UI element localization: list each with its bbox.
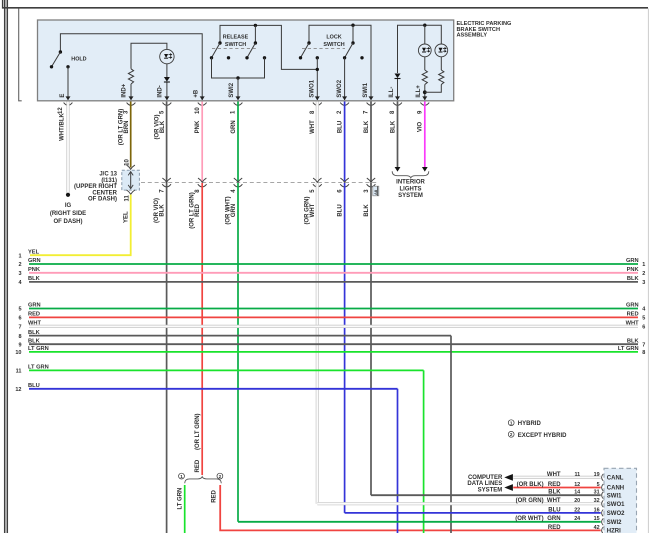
svg-text:(OR GRN): (OR GRN) bbox=[516, 498, 544, 504]
svg-text:ILL+: ILL+ bbox=[416, 85, 422, 98]
svg-text:(UPPER RIGHT: (UPPER RIGHT bbox=[74, 184, 117, 190]
svg-text:BRN: BRN bbox=[124, 120, 130, 133]
wire row 10 LT GRN bbox=[29, 351, 638, 353]
node SWI2 tap bbox=[236, 76, 239, 79]
svg-text:A8: A8 bbox=[373, 189, 378, 195]
wire GRN to SWI2 bbox=[238, 521, 601, 523]
svg-text:7: 7 bbox=[18, 325, 21, 331]
svg-text:3: 3 bbox=[124, 110, 130, 114]
svg-text:GRN: GRN bbox=[28, 258, 41, 264]
switch release pole 1 bbox=[210, 41, 230, 59]
svg-text:LT GRN: LT GRN bbox=[177, 488, 183, 510]
brace split RED wire bbox=[185, 477, 222, 484]
arrow CANL to computer data lines bbox=[504, 474, 513, 481]
svg-text:PNK: PNK bbox=[28, 267, 41, 273]
svg-text:8: 8 bbox=[642, 350, 645, 356]
svg-text:WHT: WHT bbox=[547, 472, 561, 478]
wire row 12 BLU drop bbox=[397, 389, 399, 533]
svg-text:(I131): (I131) bbox=[101, 178, 117, 184]
svg-text:42: 42 bbox=[594, 525, 600, 531]
svg-text:INTERIOR: INTERIOR bbox=[396, 180, 425, 186]
wire BLU vertical bbox=[344, 183, 346, 513]
svg-text:10: 10 bbox=[15, 350, 21, 356]
switch lock pole 1 bbox=[299, 41, 319, 59]
svg-text:5: 5 bbox=[310, 189, 316, 193]
svg-text:WHT: WHT bbox=[310, 120, 316, 134]
wire (OR LT GRN) RED vertical bbox=[201, 183, 203, 475]
wire row 6 RED bbox=[29, 316, 638, 318]
arrow ILL- to interior lights bbox=[395, 167, 401, 172]
wire YEL from J/C 13 to row 1 bbox=[30, 195, 131, 256]
wire diode to pin ILL- bbox=[397, 79, 399, 100]
svg-text:SWO1: SWO1 bbox=[607, 502, 625, 508]
LED indicator bbox=[160, 49, 174, 63]
wire release contacts to SWI2 bbox=[212, 58, 265, 78]
svg-text:GRN: GRN bbox=[626, 303, 639, 309]
wire BRN from pin IND+ bbox=[130, 102, 132, 168]
svg-text:HYBRID: HYBRID bbox=[518, 421, 542, 427]
svg-text:BLK: BLK bbox=[28, 338, 41, 344]
wire RED option 2 bbox=[220, 485, 601, 530]
wire row 8 BLK drop bbox=[450, 336, 452, 533]
svg-text:3: 3 bbox=[18, 271, 21, 277]
wire resistor2 to ILL+ junction bbox=[425, 85, 442, 93]
svg-text:22: 22 bbox=[574, 507, 580, 513]
connector box computer bbox=[604, 468, 637, 533]
wire WHT to CANL bbox=[513, 476, 601, 479]
svg-text:SWI2: SWI2 bbox=[229, 82, 235, 97]
diode ILL- bbox=[395, 74, 401, 79]
svg-text:RED: RED bbox=[28, 312, 40, 318]
J/C 13 internal arrow bbox=[130, 173, 132, 188]
svg-text:32: 32 bbox=[594, 498, 600, 504]
svg-text:BLK: BLK bbox=[28, 330, 41, 336]
wire BLU to SWO2 bbox=[345, 512, 601, 514]
node ILL+ bottom junction bbox=[423, 90, 427, 94]
svg-text:WHT: WHT bbox=[310, 203, 316, 217]
brace interior lights bbox=[392, 171, 429, 178]
svg-text:OF DASH): OF DASH) bbox=[88, 197, 117, 203]
wire lock bracket to SWI1 bbox=[309, 25, 371, 100]
label (OR LT GRN) BRN bbox=[119, 109, 130, 146]
connector arc SWI2 bbox=[602, 518, 604, 525]
svg-text:EXCEPT HYBRID: EXCEPT HYBRID bbox=[518, 433, 567, 439]
wire IND bracket bbox=[131, 43, 167, 69]
svg-text:RED: RED bbox=[627, 312, 639, 318]
option 2 marker bbox=[217, 473, 223, 479]
svg-text:BLK: BLK bbox=[627, 276, 640, 282]
svg-text:LT GRN: LT GRN bbox=[618, 346, 639, 352]
connector ID tag at SWI1 crossing bbox=[373, 186, 379, 196]
wire lock contact to SWO1 bbox=[316, 58, 318, 100]
pin SWO2 bbox=[337, 79, 349, 114]
svg-text:BLK: BLK bbox=[160, 120, 166, 133]
wire release bracket bbox=[220, 25, 317, 69]
svg-text:8: 8 bbox=[390, 110, 396, 114]
wire WHT from pin SWO1 bbox=[316, 102, 319, 183]
resistor ILL 2 bbox=[440, 57, 442, 70]
resistor ILL 1 bbox=[424, 57, 426, 70]
label LOCK SWITCH bbox=[323, 34, 344, 48]
svg-text:BLK: BLK bbox=[364, 204, 370, 217]
svg-text:11: 11 bbox=[574, 472, 580, 478]
svg-text:GRN: GRN bbox=[547, 516, 560, 522]
connector crossing pin 4 at x=238 bbox=[231, 178, 243, 193]
legend except hybrid bbox=[508, 431, 567, 438]
svg-text:2: 2 bbox=[510, 432, 513, 437]
label (OR VIO) BLK lower bbox=[154, 198, 165, 223]
svg-text:12: 12 bbox=[58, 107, 64, 114]
svg-text:RED: RED bbox=[548, 525, 561, 531]
svg-text:WHT: WHT bbox=[626, 321, 639, 327]
wire row 7 WHT bbox=[29, 325, 638, 328]
svg-text:1: 1 bbox=[642, 262, 645, 268]
svg-text:3: 3 bbox=[642, 280, 645, 286]
wire row 3 PNK bbox=[29, 272, 638, 274]
frame left double border bbox=[5, 0, 8, 533]
wire BLK from pin SWI1 bbox=[370, 102, 372, 183]
svg-text:ILL-: ILL- bbox=[389, 87, 395, 98]
svg-text:19: 19 bbox=[594, 472, 600, 478]
svg-text:7: 7 bbox=[159, 189, 165, 193]
pin ILL- bbox=[389, 87, 402, 114]
svg-text:PNK: PNK bbox=[627, 267, 640, 273]
svg-text:COMPUTER: COMPUTER bbox=[468, 475, 503, 481]
svg-text:14: 14 bbox=[574, 490, 580, 496]
svg-text:E: E bbox=[60, 94, 66, 98]
wire VIO from pin ILL+ bbox=[424, 102, 426, 168]
svg-text:RED: RED bbox=[548, 482, 561, 488]
svg-text:1: 1 bbox=[510, 420, 513, 425]
node lock bracket junction bbox=[351, 24, 354, 27]
svg-text:11: 11 bbox=[16, 369, 22, 375]
connector chevron into J/C 13 bbox=[127, 165, 135, 169]
wire BLK vertical SWI1 bbox=[370, 183, 372, 495]
svg-text:YEL: YEL bbox=[28, 249, 40, 255]
svg-text:(OR LT GRN): (OR LT GRN) bbox=[195, 413, 201, 450]
label (OR VIO) BLK upper bbox=[154, 114, 165, 139]
svg-text:BLU: BLU bbox=[337, 204, 343, 216]
svg-text:5: 5 bbox=[18, 307, 21, 313]
label IG (RIGHT SIDE OF DASH) bbox=[50, 203, 86, 225]
svg-text:15: 15 bbox=[594, 516, 600, 522]
electric parking brake switch assembly box bbox=[38, 20, 454, 101]
resistor IND+ bbox=[128, 69, 133, 84]
svg-text:SWO2: SWO2 bbox=[607, 511, 625, 517]
svg-text:BLU: BLU bbox=[28, 383, 40, 389]
harness boundary dashed line bbox=[141, 182, 377, 184]
svg-text:4: 4 bbox=[642, 307, 646, 313]
pin IND- bbox=[158, 85, 172, 114]
svg-text:CANH: CANH bbox=[607, 486, 624, 492]
svg-text:BLK: BLK bbox=[390, 120, 396, 133]
connector arc SWO2 bbox=[602, 510, 604, 517]
option 1 marker bbox=[179, 473, 185, 479]
connector arc HZRI bbox=[602, 527, 604, 533]
svg-text:IND+: IND+ bbox=[122, 83, 128, 97]
label INTERIOR LIGHTS SYSTEM bbox=[396, 180, 425, 200]
svg-text:(OR WHT): (OR WHT) bbox=[515, 516, 543, 522]
svg-text:6: 6 bbox=[642, 325, 645, 331]
wire row 11 LT GRN drop bbox=[423, 370, 425, 533]
wire (OR GRN) WHT vertical bbox=[316, 183, 319, 504]
wire RED to CANH bbox=[513, 487, 601, 489]
svg-text:SWI2: SWI2 bbox=[607, 520, 622, 526]
label: ELECTRIC PARKING BRAKE SWITCH ASSEMBLY bbox=[457, 21, 512, 39]
wire BLK to SWI1 bbox=[371, 494, 601, 496]
svg-text:SWITCH: SWITCH bbox=[323, 42, 344, 48]
connector crossing pin 7 at x=166.6 bbox=[159, 178, 171, 193]
svg-text:12: 12 bbox=[574, 482, 580, 488]
wire row 2 GRN bbox=[29, 263, 638, 265]
wire row 4 BLK bbox=[29, 281, 638, 283]
switch HOLD bbox=[50, 50, 70, 68]
wire LED to diode bbox=[166, 64, 168, 77]
svg-text:1: 1 bbox=[180, 474, 183, 479]
LED illumination 2 bbox=[435, 44, 448, 57]
frame right faint rule bbox=[647, 9, 649, 533]
svg-text:IND-: IND- bbox=[158, 85, 164, 97]
svg-text:(RIGHT SIDE: (RIGHT SIDE bbox=[50, 211, 86, 217]
svg-text:9: 9 bbox=[18, 342, 21, 348]
label RED (OR LT GRN) near split bbox=[195, 413, 201, 472]
connector crossing pin 8 at x=202.2 bbox=[195, 178, 207, 193]
svg-text:1: 1 bbox=[231, 110, 237, 114]
svg-text:WHT: WHT bbox=[547, 498, 561, 504]
wire SWI2 drop bbox=[237, 78, 239, 100]
wire PNK from pin +B bbox=[201, 102, 203, 183]
svg-text:GRN: GRN bbox=[626, 258, 639, 264]
svg-text:1: 1 bbox=[18, 253, 21, 259]
svg-text:BLK: BLK bbox=[548, 490, 561, 496]
label J/C 13 (I131) (UPPER RIGHT CENTER OF DASH) bbox=[74, 172, 118, 203]
svg-text:LIGHTS: LIGHTS bbox=[400, 186, 422, 192]
svg-text:BLU: BLU bbox=[337, 121, 343, 133]
svg-text:4: 4 bbox=[18, 280, 22, 286]
svg-text:12: 12 bbox=[15, 387, 21, 393]
wire resistor to pin IND+ bbox=[130, 84, 132, 100]
pin IND+ bbox=[122, 83, 136, 114]
svg-text:HOLD: HOLD bbox=[71, 57, 86, 63]
svg-text:WHT: WHT bbox=[28, 321, 41, 327]
pin ILL+ bbox=[416, 85, 429, 114]
wire WHT to SWO1 bbox=[317, 502, 600, 505]
svg-text:2: 2 bbox=[337, 110, 343, 114]
svg-text:IG: IG bbox=[65, 203, 72, 209]
wire BLU from pin SWO2 bbox=[344, 102, 346, 183]
svg-text:RED: RED bbox=[195, 459, 201, 472]
svg-text:2: 2 bbox=[642, 271, 645, 277]
label RELEASE SWITCH bbox=[223, 34, 249, 48]
svg-text:31: 31 bbox=[594, 490, 600, 496]
svg-text:YEL: YEL bbox=[124, 211, 130, 223]
wire (OR WHT) GRN vertical bbox=[237, 183, 239, 522]
svg-text:7: 7 bbox=[364, 110, 370, 114]
svg-text:LT GRN: LT GRN bbox=[28, 346, 49, 352]
svg-text:2: 2 bbox=[219, 474, 222, 479]
svg-text:BLK: BLK bbox=[159, 204, 165, 217]
wire (OR VIO) BLK from pin IND- full drop bbox=[166, 102, 168, 533]
svg-text:CENTER: CENTER bbox=[92, 190, 117, 196]
label (OR GRN) WHT lower bbox=[305, 197, 316, 225]
svg-text:J/C 13: J/C 13 bbox=[99, 172, 117, 178]
connector crossing pin 6 at x=344.6 bbox=[337, 178, 349, 193]
label (OR LT GRN) RED lower bbox=[190, 192, 201, 229]
wire row 11 LT GRN bbox=[29, 369, 424, 371]
wire GRN from pin SWI2 bbox=[237, 102, 239, 183]
label COMPUTER DATA LINES SYSTEM bbox=[467, 475, 503, 493]
svg-text:(OR BLK): (OR BLK) bbox=[517, 482, 544, 488]
connector crossing pin 5 at x=317.3 bbox=[310, 178, 322, 193]
svg-text:6: 6 bbox=[337, 189, 343, 193]
pin SWI1 bbox=[363, 82, 375, 114]
svg-text:16: 16 bbox=[594, 507, 600, 513]
svg-text:SYSTEM: SYSTEM bbox=[478, 487, 503, 493]
node release bracket junction bbox=[254, 24, 257, 27]
svg-text:ASSEMBLY: ASSEMBLY bbox=[457, 33, 488, 39]
wire HOLD contact to pin E bbox=[67, 67, 69, 100]
svg-text:4: 4 bbox=[231, 189, 237, 193]
svg-text:DATA LINES: DATA LINES bbox=[467, 481, 502, 487]
switch release pole 2 bbox=[245, 41, 266, 59]
wire lock contact to SWO2 bbox=[344, 58, 346, 100]
svg-text:2: 2 bbox=[18, 262, 21, 268]
svg-text:5: 5 bbox=[160, 110, 166, 114]
svg-text:BLU: BLU bbox=[548, 507, 560, 513]
svg-text:SYSTEM: SYSTEM bbox=[398, 193, 423, 199]
connector arc SWI1 bbox=[602, 492, 604, 499]
svg-text:9: 9 bbox=[417, 110, 423, 114]
svg-text:7: 7 bbox=[642, 342, 645, 348]
connector crossing pin 3 at x=371 bbox=[364, 178, 376, 193]
svg-text:VIO: VIO bbox=[418, 122, 424, 133]
svg-text:5: 5 bbox=[642, 316, 645, 322]
svg-text:HZRI: HZRI bbox=[607, 529, 621, 533]
wire row 8 BLK bbox=[29, 335, 451, 337]
frame inner left rule bbox=[19, 9, 22, 101]
connector arc CANH bbox=[602, 484, 604, 491]
svg-text:BLK: BLK bbox=[627, 338, 640, 344]
diode IND- bbox=[164, 77, 170, 82]
pin E bbox=[58, 94, 72, 114]
release gang dashed link bbox=[212, 47, 256, 49]
connector arc CANL bbox=[602, 474, 604, 481]
svg-text:20: 20 bbox=[574, 498, 580, 504]
svg-text:BLK: BLK bbox=[364, 120, 370, 133]
wire WHT/BLK from pin E bbox=[66, 102, 69, 194]
svg-text:PNK: PNK bbox=[195, 120, 201, 133]
lock gang dashed link bbox=[302, 47, 345, 49]
svg-text:6: 6 bbox=[18, 316, 21, 322]
wire BLK from pin ILL- bbox=[397, 102, 399, 168]
svg-text:24: 24 bbox=[574, 516, 580, 522]
svg-text:GRN: GRN bbox=[231, 120, 237, 133]
svg-text:RED: RED bbox=[195, 204, 201, 217]
svg-text:SWI1: SWI1 bbox=[607, 493, 622, 499]
legend hybrid bbox=[508, 420, 541, 427]
svg-text:SWO1: SWO1 bbox=[310, 79, 316, 97]
svg-text:LOCK: LOCK bbox=[326, 34, 341, 40]
svg-text:8: 8 bbox=[195, 189, 201, 193]
wire +B bus bbox=[60, 34, 202, 100]
wire row 9 BLK bbox=[29, 343, 638, 345]
wire ILL bracket bbox=[398, 25, 442, 73]
pin SWI2 bbox=[229, 82, 243, 114]
svg-text:LT GRN: LT GRN bbox=[28, 365, 49, 371]
node ILL+ top junction bbox=[423, 24, 426, 27]
svg-text:3: 3 bbox=[364, 189, 370, 193]
LED illumination 1 bbox=[418, 44, 431, 57]
wire resistor1 to pin ILL+ bbox=[424, 85, 426, 101]
label (OR WHT) GRN lower bbox=[225, 196, 236, 224]
svg-text:OF DASH): OF DASH) bbox=[54, 219, 83, 225]
wire row 12 BLU bbox=[29, 388, 398, 390]
pin SWO1 bbox=[310, 79, 322, 114]
svg-text:CANL: CANL bbox=[607, 476, 624, 482]
J/C 13 box bbox=[122, 170, 140, 190]
splice IG bbox=[66, 193, 70, 197]
svg-text:RED: RED bbox=[211, 489, 217, 502]
svg-text:8: 8 bbox=[310, 110, 316, 114]
svg-text:SWO2: SWO2 bbox=[337, 79, 343, 97]
node SWO1 junction bbox=[316, 68, 319, 71]
svg-text:8: 8 bbox=[18, 334, 21, 340]
wire row 5 GRN bbox=[29, 308, 638, 310]
frame corner stub bbox=[2, 0, 4, 9]
svg-text:GRN: GRN bbox=[28, 303, 41, 309]
pin +B bbox=[194, 89, 207, 114]
svg-text:+B: +B bbox=[194, 89, 200, 98]
arrow CANH to computer data lines bbox=[504, 484, 513, 491]
frame top border bbox=[2, 7, 648, 9]
svg-text:GRN: GRN bbox=[231, 204, 237, 217]
switch lock pole 2 bbox=[343, 41, 364, 59]
svg-text:WHT/BLK: WHT/BLK bbox=[59, 113, 65, 141]
svg-text:SWI1: SWI1 bbox=[363, 82, 369, 97]
wire LT GRN option 1 bbox=[184, 485, 186, 533]
svg-text:SWITCH: SWITCH bbox=[225, 42, 246, 48]
arrow ILL+ to interior lights bbox=[422, 167, 428, 172]
svg-text:RELEASE: RELEASE bbox=[223, 34, 249, 40]
svg-text:10: 10 bbox=[195, 107, 201, 114]
wire diode to pin IND- bbox=[166, 83, 168, 101]
svg-text:5: 5 bbox=[597, 482, 600, 488]
connector arc SWO1 bbox=[602, 500, 604, 507]
svg-text:BLK: BLK bbox=[28, 276, 41, 282]
svg-text:10: 10 bbox=[125, 158, 131, 165]
connector chevron out of J/C 13 bbox=[127, 190, 135, 194]
